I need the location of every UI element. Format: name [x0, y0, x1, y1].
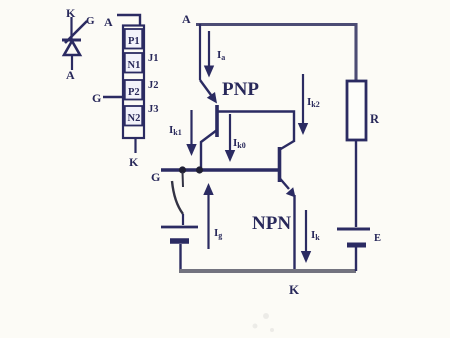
battery Vg: positive plate [161, 226, 198, 229]
svg-text:Ik0: Ik0 [233, 137, 246, 150]
battery E: positive plate [337, 228, 370, 231]
transistor PNP: emitter with arrow [200, 80, 217, 104]
bottom cathode rail wire [179, 269, 356, 273]
svg-text:A: A [182, 12, 191, 26]
wire: battery E to bottom rail [355, 247, 357, 271]
current arrow Ia [204, 31, 214, 78]
svg-text:K: K [129, 155, 139, 169]
wire: switch to battery Vg [182, 214, 184, 225]
svg-text:J3: J3 [148, 104, 159, 115]
svg-text:P1: P1 [128, 36, 140, 47]
thyristor symbol: cathode lead wire [70, 17, 72, 40]
svg-text:G: G [92, 91, 101, 105]
svg-text:G: G [151, 170, 160, 184]
current arrow Ig [203, 183, 213, 249]
circuit: top rail wire from A to R branch [196, 25, 356, 81]
structure: layer N1 [125, 53, 142, 73]
svg-text:Ia: Ia [217, 49, 225, 62]
svg-text:P2: P2 [128, 87, 140, 98]
wire: NPN emitter to cathode rail [293, 195, 295, 271]
svg-text:G: G [86, 15, 95, 27]
svg-text:N1: N1 [128, 60, 141, 71]
transistor PNP: base bar [215, 105, 219, 137]
switch: fixed contact stub [182, 172, 185, 187]
transistor NPN: emitter with arrow [280, 178, 296, 198]
junction dot: switch branch [179, 166, 186, 173]
current arrow Ik2 [298, 74, 308, 135]
svg-text:N2: N2 [128, 113, 141, 124]
structure: outer four-layer box [123, 26, 144, 139]
thyristor symbol: anode lead wire [71, 56, 73, 70]
svg-text:A: A [66, 68, 75, 82]
battery Vg: negative plate [170, 238, 189, 244]
current arrow Ik [301, 210, 311, 263]
structure: cathode lead wire [134, 138, 136, 153]
structure: layer N2 [125, 106, 142, 126]
switch: open blade [172, 181, 183, 214]
svg-text:Ik2: Ik2 [307, 96, 320, 109]
resistor R box [347, 81, 366, 140]
svg-text:NPN: NPN [252, 213, 291, 234]
faint artifact smudge [253, 313, 275, 332]
thyristor symbol: cathode bar [62, 39, 81, 42]
structure: gate lead wire [103, 96, 123, 99]
wire: PNP base to NPN collector [217, 112, 294, 143]
transistor NPN: collector wire [279, 141, 294, 150]
battery E: negative plate [347, 243, 366, 248]
svg-text:E: E [374, 233, 381, 244]
svg-text:Ik1: Ik1 [169, 124, 182, 137]
svg-text:K: K [289, 282, 300, 297]
thyristor symbol: triangle [64, 41, 80, 55]
svg-text:J1: J1 [148, 53, 159, 64]
svg-text:Ik: Ik [311, 229, 320, 242]
structure: layer P1 [125, 29, 142, 49]
transistor PNP: collector wire to gate rail [201, 130, 217, 168]
current arrow Ik0 [225, 114, 235, 162]
svg-text:R: R [370, 112, 380, 126]
transistor NPN: base bar [278, 147, 282, 182]
structure: anode lead wire [117, 15, 140, 26]
circuit: gate rail wire [161, 168, 280, 171]
wire: battery Vg to bottom rail [179, 244, 181, 271]
svg-text:J2: J2 [148, 80, 159, 91]
svg-text:Ig: Ig [214, 227, 222, 240]
wire: R to battery E [355, 140, 357, 227]
svg-text:A: A [104, 15, 113, 29]
circuit: wire A rail down to PNP emitter [199, 24, 201, 80]
current arrow Ik1 [186, 110, 196, 156]
structure: layer P2 [125, 80, 142, 100]
thyristor symbol: gate lead wire [65, 21, 87, 43]
junction dot: PNP collector [196, 166, 203, 173]
svg-text:PNP: PNP [222, 79, 259, 100]
